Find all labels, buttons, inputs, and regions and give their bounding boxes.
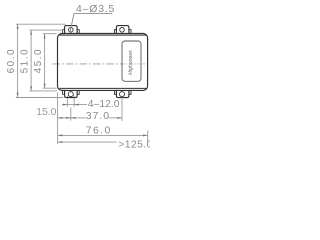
svg-text:45.0: 45.0 xyxy=(33,48,44,73)
svg-text:15.0: 15.0 xyxy=(36,107,56,118)
svg-text:60.0: 60.0 xyxy=(6,48,17,73)
svg-text:37.0: 37.0 xyxy=(86,111,110,122)
svg-text:Highpower: Highpower xyxy=(128,50,134,75)
svg-text:4–12.0: 4–12.0 xyxy=(88,99,120,110)
svg-text:76.0: 76.0 xyxy=(86,125,112,136)
svg-text:>125.0: >125.0 xyxy=(118,139,150,150)
svg-text:51.0: 51.0 xyxy=(20,48,31,73)
